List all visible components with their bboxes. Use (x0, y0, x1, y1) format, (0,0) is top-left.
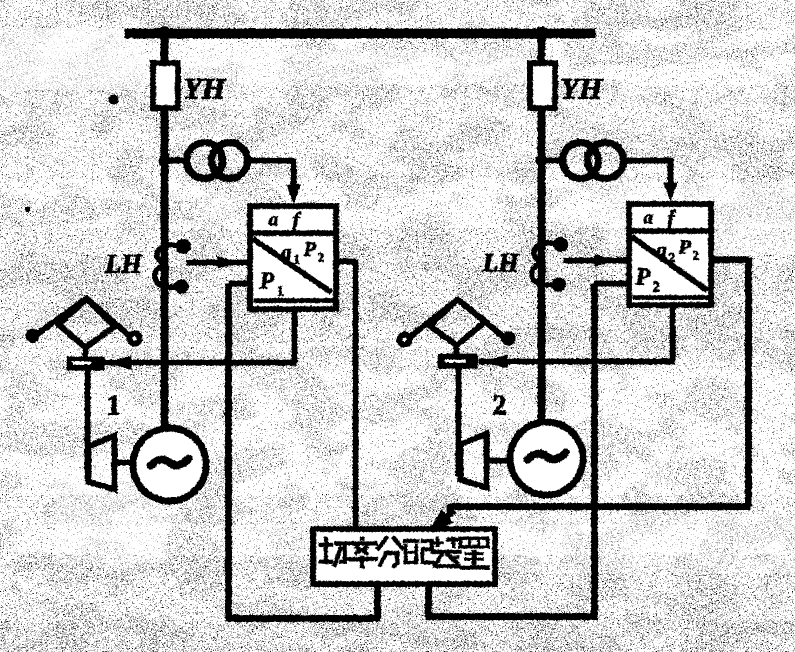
svg-text:P: P (302, 238, 316, 260)
svg-text:LH: LH (104, 249, 142, 278)
svg-text:2: 2 (652, 279, 660, 295)
svg-text:1: 1 (106, 390, 120, 421)
svg-text:YH: YH (560, 72, 603, 105)
svg-text:a: a (268, 209, 278, 230)
svg-text:q: q (281, 241, 291, 263)
svg-text:LH: LH (481, 248, 519, 277)
svg-text:2: 2 (317, 249, 324, 264)
svg-text:1: 1 (293, 251, 300, 266)
svg-text:P: P (634, 264, 650, 290)
svg-text:2: 2 (492, 390, 506, 421)
svg-text:2: 2 (668, 249, 675, 264)
svg-text:1: 1 (276, 283, 284, 299)
svg-text:P: P (677, 236, 691, 258)
svg-text:P: P (258, 268, 274, 294)
svg-text:YH: YH (183, 72, 226, 105)
svg-text:2: 2 (692, 247, 699, 262)
svg-text:a: a (643, 207, 653, 228)
svg-text:q: q (656, 239, 666, 261)
